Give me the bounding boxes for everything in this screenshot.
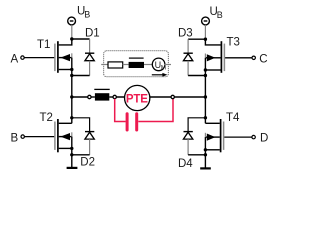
node D4 cathode junction xyxy=(204,116,207,119)
red wire capacitor to right drop xyxy=(138,99,173,122)
arrow U_M voltage xyxy=(152,73,168,77)
svg-text:B: B xyxy=(84,10,90,20)
wire top rail right xyxy=(188,38,205,40)
node T4 source junction xyxy=(204,148,207,151)
wire D1 anode to leg xyxy=(72,75,90,77)
dashed box motor model xyxy=(104,51,169,77)
wire B to gate T2 xyxy=(24,136,54,138)
diode D3 xyxy=(183,39,192,75)
wire rail o1 to L1 xyxy=(91,96,95,98)
svg-text:B: B xyxy=(217,10,223,20)
wire bridge rail left xyxy=(72,96,88,98)
wire model L to UM xyxy=(144,64,153,66)
wire model R to L xyxy=(123,64,129,66)
wire gate T3 to C xyxy=(225,57,252,59)
label U_B right xyxy=(210,6,223,20)
svg-text:D: D xyxy=(260,133,268,145)
svg-text:D1: D1 xyxy=(85,28,100,40)
node D2 anode junction xyxy=(70,153,73,156)
wire gate T4 to D xyxy=(224,136,252,138)
capacitor C1 red plate right xyxy=(135,114,138,130)
terminal B xyxy=(21,135,24,138)
svg-text:B: B xyxy=(11,132,19,144)
svg-text:T4: T4 xyxy=(226,112,240,124)
transistor T4 xyxy=(205,119,223,152)
wire model stub right xyxy=(165,64,172,66)
node T2 source junction xyxy=(70,147,73,150)
svg-text:D4: D4 xyxy=(178,158,193,170)
svg-text:T2: T2 xyxy=(40,112,53,124)
svg-text:T3: T3 xyxy=(227,37,240,49)
wire D4 anode to leg xyxy=(188,154,205,156)
inductor L model xyxy=(129,58,144,68)
terminal A xyxy=(21,56,24,59)
supply terminal UB left xyxy=(68,17,76,25)
supply terminal UB right xyxy=(202,17,210,25)
node T3 source junction xyxy=(204,68,207,71)
node right bridge midpoint xyxy=(204,95,207,98)
node D2 cathode junction xyxy=(70,116,73,119)
capacitor C1 red plate left xyxy=(126,114,129,130)
svg-text:M: M xyxy=(161,65,166,72)
label U_B left xyxy=(77,6,90,20)
wire model stub left xyxy=(101,64,108,66)
wire D2 anode to leg xyxy=(72,154,90,156)
wire left leg lower xyxy=(71,137,73,168)
svg-text:PTE: PTE xyxy=(126,93,148,105)
wire rail L1 to o2 xyxy=(109,96,113,98)
svg-text:T1: T1 xyxy=(37,39,50,51)
node connector o2 xyxy=(113,95,116,98)
wire rail o2 to o3 xyxy=(116,96,171,98)
node connector o1 xyxy=(88,95,91,98)
svg-text:D2: D2 xyxy=(80,156,95,168)
wire right leg lower xyxy=(204,137,206,168)
node D1 anode junction xyxy=(70,74,73,77)
wire supply drop left xyxy=(71,25,73,39)
diode D2 xyxy=(85,132,94,155)
wire D4 cathode branch xyxy=(188,118,205,132)
wire A to gate T1 xyxy=(24,57,54,59)
diode D4 xyxy=(183,132,192,155)
source U_M xyxy=(152,58,166,71)
inductor L1 xyxy=(94,89,109,100)
terminal C xyxy=(252,56,255,59)
transistor T2 xyxy=(55,119,72,152)
svg-text:D3: D3 xyxy=(178,28,193,40)
node D4 anode junction xyxy=(204,153,207,156)
wire supply drop right xyxy=(204,25,206,39)
svg-text:A: A xyxy=(11,53,19,65)
svg-text:C: C xyxy=(259,53,267,65)
transistor T3 xyxy=(205,39,224,73)
wire right leg upper xyxy=(204,58,206,124)
wire left leg upper xyxy=(71,58,73,124)
node top-right junction xyxy=(204,38,207,41)
transistor T1 xyxy=(55,39,72,73)
ground bar right xyxy=(200,167,211,169)
diode D1 xyxy=(85,39,94,76)
node connector o3 xyxy=(171,95,174,98)
node left bridge midpoint xyxy=(70,95,73,98)
wire D3 anode to leg xyxy=(188,75,205,77)
red wire PTE parallel loop xyxy=(115,99,126,122)
terminal D xyxy=(252,135,255,138)
wire bridge rail right xyxy=(174,96,205,98)
wire D2 cathode branch xyxy=(72,118,90,132)
ground bar left xyxy=(67,167,78,169)
wire top rail left xyxy=(72,38,90,40)
transducer PTE xyxy=(125,85,150,110)
node top-left junction xyxy=(70,37,73,40)
resistor R model xyxy=(108,62,123,68)
node D3 anode junction xyxy=(204,74,207,77)
node T1 source junction xyxy=(70,68,73,71)
